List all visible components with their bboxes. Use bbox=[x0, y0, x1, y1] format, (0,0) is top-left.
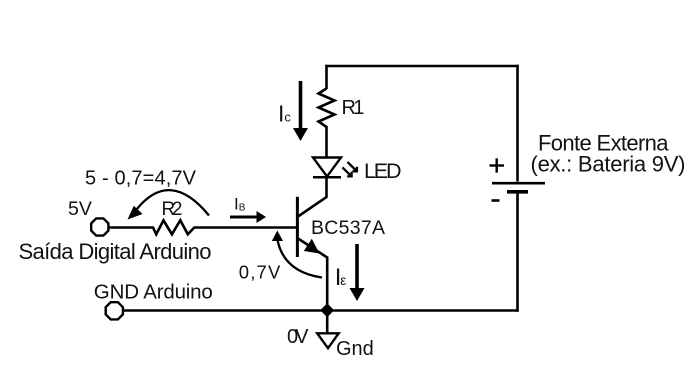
svg-text:Saída Digital Arduino: Saída Digital Arduino bbox=[19, 239, 212, 264]
battery B1 negative plate bbox=[507, 190, 528, 194]
wire: LED to transistor collector bbox=[325, 176, 328, 198]
current arrow IB bbox=[230, 211, 266, 223]
battery plus label bbox=[490, 158, 505, 172]
wire: right rail lower (battery -) bbox=[516, 192, 519, 312]
annotation arrow: 4,7V at base bbox=[128, 190, 210, 219]
wire: ground stem bbox=[326, 311, 329, 333]
LED D1 cathode bar bbox=[313, 176, 341, 179]
LED D1 triangle bbox=[313, 158, 341, 177]
wire: collector column top to R1 bbox=[325, 65, 328, 89]
svg-text:BC537A: BC537A bbox=[311, 217, 385, 239]
terminal: 5V pad bbox=[91, 218, 108, 235]
LED emission arrow 2 bbox=[342, 167, 351, 176]
svg-text:0,7V: 0,7V bbox=[239, 262, 281, 283]
svg-text:(ex.: Bateria 9V): (ex.: Bateria 9V) bbox=[531, 152, 686, 177]
svg-text:0V: 0V bbox=[287, 326, 309, 348]
transistor Q1 collector lead bbox=[298, 197, 327, 217]
ground symbol bbox=[317, 333, 339, 348]
svg-text:Iε: Iε bbox=[335, 264, 347, 291]
transistor Q1 emitter lead bbox=[298, 239, 327, 258]
svg-text:1: 1 bbox=[353, 97, 364, 119]
wire: bottom rail bbox=[123, 309, 519, 312]
svg-text:5 - 0,7=4,7V: 5 - 0,7=4,7V bbox=[85, 168, 197, 190]
svg-text:5V: 5V bbox=[68, 198, 92, 220]
battery B1 positive plate bbox=[492, 182, 545, 185]
svg-text:GND Arduino: GND Arduino bbox=[94, 281, 213, 304]
svg-text:R2: R2 bbox=[162, 199, 183, 220]
svg-text:LED: LED bbox=[364, 159, 402, 183]
transistor Q1 base bar bbox=[296, 197, 299, 257]
current arrow IC bbox=[293, 81, 308, 141]
transistor Q1 emitter arrowhead bbox=[304, 239, 320, 254]
wire: right rail upper (battery +) bbox=[516, 65, 519, 182]
resistor R1 bbox=[319, 89, 335, 128]
terminal: GND Arduino pad bbox=[106, 302, 123, 319]
wire: top rail collector to battery bbox=[325, 65, 518, 68]
svg-text:IB: IB bbox=[234, 195, 246, 214]
resistor R2 bbox=[153, 220, 194, 234]
junction: emitter-ground node bbox=[320, 303, 334, 317]
wire: base wire left of R2 bbox=[108, 226, 154, 229]
svg-text:Ic: Ic bbox=[278, 101, 291, 127]
wire: R1 to LED bbox=[325, 126, 328, 158]
svg-text:Gnd: Gnd bbox=[336, 338, 374, 360]
wire: base wire right of R2 bbox=[194, 226, 297, 229]
wire: emitter column to junction bbox=[326, 257, 329, 312]
battery minus label bbox=[492, 199, 500, 202]
LED emission arrow 1 bbox=[348, 162, 357, 171]
current arrow IE bbox=[350, 244, 365, 301]
annotation arrow: 0,7V at base-emitter bbox=[272, 231, 322, 278]
